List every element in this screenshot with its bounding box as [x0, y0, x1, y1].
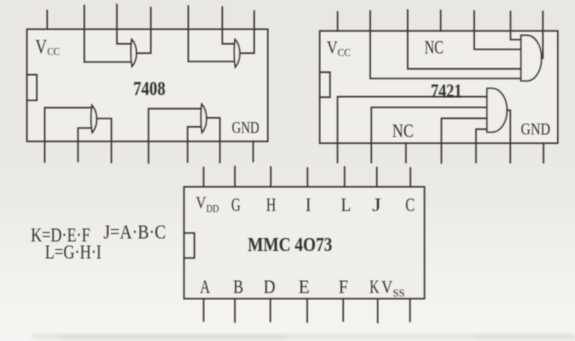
svg-text:K: K	[370, 277, 380, 298]
U3 top pin 5 (L)	[344, 167, 346, 187]
U3 bottom pin 2 (B)	[234, 299, 236, 322]
svg-text:CC: CC	[47, 46, 60, 58]
U3 bottom pin 7 (VSS)	[409, 299, 411, 322]
U1 top pin 2 wire to gate A input B	[84, 6, 131, 63]
U3 bottom pin 5 (F)	[342, 299, 344, 321]
U3 top pin 7 (C)	[409, 168, 411, 187]
svg-text:E: E	[299, 277, 310, 298]
U1 AND gate C	[91, 105, 96, 132]
U1 bottom pin 1 wire to gate C input A	[45, 108, 92, 162]
svg-text:V: V	[196, 193, 207, 212]
svg-text:MMC 4O73: MMC 4O73	[248, 234, 333, 256]
svg-text:I: I	[306, 195, 312, 216]
U1 AND gate B	[234, 39, 239, 67]
U2 gate A output wire to top pin 7	[541, 12, 543, 59]
U2 bottom pin 5 wire to gate B input 4	[476, 129, 487, 162]
U1 gate C output wire to bottom pin 3	[97, 119, 112, 163]
U3 bottom pin 6 (K)	[377, 299, 379, 323]
U3 top pin 3 (H)	[270, 167, 272, 187]
U1 gate B output wire to top pin 7	[240, 11, 255, 53]
IC U1 7408 package body	[27, 29, 268, 141]
U1 top pin 1 (Vcc)	[46, 11, 48, 30]
svg-text:H: H	[266, 195, 276, 216]
IC U2 7421 package body	[320, 31, 558, 143]
U2 bottom pin 7 (GND)	[543, 143, 545, 163]
svg-text:7408: 7408	[133, 79, 165, 100]
U1 top pin 3 wire to gate A input A	[117, 5, 132, 44]
svg-text:CC: CC	[338, 48, 351, 59]
U2 bottom pin 2 wire to gate B input 2	[371, 107, 487, 162]
U3 bottom pin 1 (A)	[203, 299, 205, 321]
U2 bottom pin 3 (NC)	[405, 143, 407, 162]
U1 bottom pin 7 (GND)	[252, 141, 254, 161]
svg-text:L=G·H·I: L=G·H·I	[45, 241, 102, 263]
svg-text:D: D	[264, 277, 276, 298]
U1 pin-1 index notch	[27, 75, 37, 101]
U2 top pin 4 (NC)	[440, 11, 442, 31]
svg-text:A: A	[200, 277, 210, 298]
U3 pin-1 index notch	[184, 233, 194, 258]
U1 AND gate D	[201, 104, 206, 132]
U3 bottom pin 3 (D)	[269, 299, 271, 322]
svg-text:J=A·B·C: J=A·B·C	[104, 222, 167, 244]
U2 gate B output wire to bottom pin 6	[507, 110, 511, 162]
U1 bottom pin 4 wire to gate D input A	[149, 109, 202, 163]
svg-text:C: C	[405, 195, 414, 216]
U1 top pin 5 wire to gate B input B	[188, 6, 235, 62]
svg-text:DD: DD	[206, 204, 219, 215]
U1 bottom pin 5 wire to gate D input B	[188, 127, 202, 162]
U1 AND gate A	[131, 39, 136, 66]
U3 top pin 2 (G)	[234, 167, 236, 187]
svg-text:V: V	[382, 277, 393, 297]
U2 top pin 3 wire to gate A input 3	[408, 10, 521, 69]
U2 top pin 5 wire to gate A input 2	[474, 11, 521, 49]
U1 gate A output wire to top pin 4	[136, 8, 150, 54]
U2 top pin 2 wire to gate A input 4	[370, 11, 521, 79]
IC U3 MMC 4O73 package body	[184, 187, 425, 299]
svg-text:L: L	[341, 195, 351, 216]
U1 bottom pin 2 wire to gate C input B	[78, 128, 92, 162]
U3 top pin 6 (J)	[376, 168, 378, 187]
svg-text:7421: 7421	[431, 81, 462, 102]
svg-text:GND: GND	[521, 120, 551, 139]
svg-text:GND: GND	[232, 118, 260, 137]
U2 4-input AND gate A	[521, 35, 541, 81]
svg-text:G: G	[231, 195, 240, 216]
svg-text:J: J	[372, 195, 381, 216]
U1 top pin 6 wire to gate B input A	[222, 7, 235, 44]
svg-text:NC: NC	[425, 39, 444, 59]
U3 top pin 1 (VDD)	[203, 168, 205, 187]
U3 top pin 4 (I)	[307, 168, 309, 187]
U1 gate D output wire to bottom pin 6	[206, 118, 220, 163]
svg-text:V: V	[327, 37, 338, 57]
U2 4-input AND gate B	[487, 88, 507, 132]
svg-text:NC: NC	[392, 121, 413, 142]
U2 bottom pin 4 wire to gate B input 3	[441, 118, 487, 163]
svg-text:B: B	[233, 277, 243, 298]
U2 top pin 1 (Vcc)	[337, 12, 339, 31]
U2 bottom pin 1 wire to gate B input 1	[338, 97, 488, 163]
U2 pin-1 index notch	[320, 72, 330, 97]
U3 bottom pin 4 (E)	[306, 299, 308, 322]
svg-text:F: F	[339, 277, 348, 298]
U2 top pin 6 wire to gate A input 1	[511, 12, 522, 40]
svg-text:V: V	[35, 37, 47, 58]
svg-text:SS: SS	[393, 288, 405, 299]
